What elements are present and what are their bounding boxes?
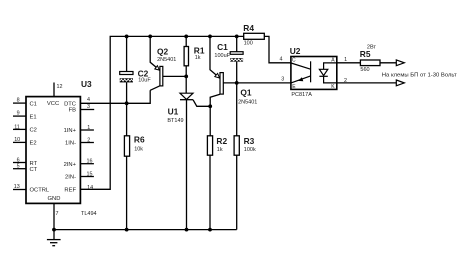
svg-text:C1: C1 bbox=[217, 42, 228, 52]
svg-text:2IN-: 2IN- bbox=[65, 175, 76, 181]
svg-text:TL494: TL494 bbox=[81, 211, 97, 217]
svg-text:16: 16 bbox=[87, 159, 93, 165]
svg-text:13: 13 bbox=[14, 184, 20, 190]
svg-text:R3: R3 bbox=[244, 136, 255, 146]
svg-text:GND: GND bbox=[48, 196, 61, 202]
svg-text:12: 12 bbox=[57, 84, 63, 90]
svg-text:1: 1 bbox=[344, 57, 347, 63]
svg-text:VCC: VCC bbox=[47, 101, 59, 107]
svg-text:1: 1 bbox=[87, 125, 90, 131]
svg-text:Q2: Q2 bbox=[157, 46, 169, 56]
svg-text:2Вт: 2Вт bbox=[367, 45, 377, 51]
svg-text:C: C bbox=[292, 57, 296, 63]
svg-text:15: 15 bbox=[87, 172, 93, 178]
svg-text:2N5401: 2N5401 bbox=[238, 99, 257, 105]
svg-text:100uF: 100uF bbox=[214, 53, 230, 59]
svg-text:U2: U2 bbox=[290, 46, 301, 56]
svg-text:10: 10 bbox=[14, 137, 20, 143]
svg-text:2N5401: 2N5401 bbox=[157, 57, 176, 63]
svg-text:7: 7 bbox=[56, 211, 59, 217]
svg-text:10uF: 10uF bbox=[138, 77, 151, 83]
svg-text:4: 4 bbox=[87, 97, 90, 103]
svg-text:2: 2 bbox=[344, 78, 347, 84]
svg-text:14: 14 bbox=[87, 185, 93, 191]
svg-text:100: 100 bbox=[244, 41, 253, 47]
svg-text:3: 3 bbox=[87, 104, 90, 110]
svg-text:R1: R1 bbox=[194, 46, 205, 56]
svg-text:C2: C2 bbox=[30, 128, 37, 134]
svg-text:4: 4 bbox=[280, 57, 283, 63]
svg-text:2: 2 bbox=[87, 137, 90, 143]
svg-text:R4: R4 bbox=[243, 23, 254, 33]
svg-text:9: 9 bbox=[17, 110, 20, 116]
svg-text:1k: 1k bbox=[195, 55, 201, 61]
svg-text:R6: R6 bbox=[134, 135, 145, 145]
svg-text:OCTRL: OCTRL bbox=[30, 188, 50, 194]
svg-text:CT: CT bbox=[30, 167, 38, 173]
svg-text:REF: REF bbox=[64, 187, 76, 193]
svg-text:3: 3 bbox=[281, 77, 284, 83]
svg-text:E1: E1 bbox=[30, 114, 37, 120]
svg-text:560: 560 bbox=[360, 67, 369, 73]
svg-text:DTC: DTC bbox=[64, 101, 76, 107]
svg-text:PC817A: PC817A bbox=[291, 92, 312, 98]
svg-text:10k: 10k bbox=[134, 146, 143, 152]
svg-text:BT149: BT149 bbox=[167, 118, 183, 124]
svg-text:1IN+: 1IN+ bbox=[64, 128, 77, 134]
svg-text:1k: 1k bbox=[217, 147, 223, 153]
svg-text:R2: R2 bbox=[216, 136, 227, 146]
svg-text:U1: U1 bbox=[168, 107, 179, 117]
svg-text:8: 8 bbox=[17, 98, 20, 104]
svg-text:2IN+: 2IN+ bbox=[64, 162, 77, 168]
svg-text:C1: C1 bbox=[30, 101, 37, 107]
svg-text:U3: U3 bbox=[81, 79, 92, 89]
svg-text:5: 5 bbox=[17, 164, 20, 170]
svg-text:На клемы БП от 1-30 Вольт: На клемы БП от 1-30 Вольт bbox=[382, 73, 457, 79]
svg-text:11: 11 bbox=[14, 124, 20, 130]
svg-text:100k: 100k bbox=[244, 147, 256, 153]
svg-text:Q1: Q1 bbox=[240, 88, 252, 98]
svg-text:E2: E2 bbox=[30, 141, 37, 147]
svg-text:1IN-: 1IN- bbox=[65, 141, 76, 147]
svg-text:FB: FB bbox=[69, 108, 77, 114]
